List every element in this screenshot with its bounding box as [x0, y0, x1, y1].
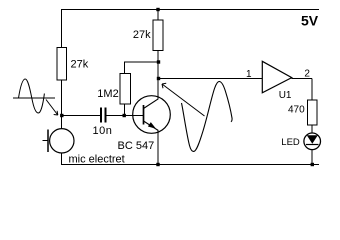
svg-text:1M2: 1M2: [97, 88, 118, 100]
annotation: arrow from small sine to node A: [46, 100, 58, 116]
wire R4 bottom to LED top: [311, 125, 313, 134]
annotation: large sine wave at collector: [182, 81, 233, 151]
resistor R4 470: [308, 100, 318, 125]
emitter arrow of Q1: [148, 122, 156, 129]
resistor R2 27k: [153, 20, 163, 51]
resistor R1 27k: [57, 48, 67, 81]
svg-text:10n: 10n: [93, 125, 113, 137]
svg-text:mic electret: mic electret: [69, 154, 125, 166]
wire R2 bottom to Q1 collector: [157, 51, 159, 100]
svg-text:BC 547: BC 547: [118, 140, 155, 152]
node: junction dot 1M2 / base wire: [123, 114, 126, 117]
wire rail to R2 top: [157, 10, 159, 21]
wire U1 output to R4: [292, 78, 313, 80]
annotation: small sine wave at mic input: [13, 79, 55, 113]
annotation: arrow from large sine to collector node: [162, 83, 205, 116]
node: junction dot top rail / R2: [156, 8, 159, 11]
wire mic bottom lead: [61, 153, 63, 165]
microphone MIC electret: [43, 129, 75, 153]
svg-text:U1: U1: [279, 90, 292, 101]
node: junction dot LED / bottom rail: [311, 163, 314, 166]
svg-text:1: 1: [246, 69, 252, 80]
wire R3 top lead: [124, 62, 126, 74]
wire R3 bottom lead: [124, 104, 126, 116]
node: junction dot 1M2 / collector: [157, 60, 160, 63]
svg-text:27k: 27k: [71, 58, 89, 70]
wire top rail: [61, 9, 319, 11]
capacitor C1 10n: [100, 108, 107, 123]
wire collector node to U1 input: [158, 78, 262, 80]
LED D1: [304, 133, 321, 150]
5V supply rail (top): [61, 10, 319, 165]
wire C1 right plate to Q1 base: [106, 115, 144, 117]
svg-text:LED: LED: [281, 137, 300, 148]
svg-text:470: 470: [288, 105, 305, 116]
node A: junction dot mic / R1 / C1: [60, 114, 63, 117]
transistor Q1 BC 547: [133, 96, 171, 134]
wire bottom rail: [61, 164, 319, 166]
op-amp buffer U1: [262, 61, 291, 93]
wire node A to C1 left plate: [62, 115, 101, 117]
resistor R3 1M2: [120, 74, 131, 105]
wire Q1 emitter to rail: [157, 130, 159, 165]
svg-text:2: 2: [304, 69, 310, 80]
node: junction dot collector / U1 input: [157, 77, 160, 80]
wire R1 bottom to mic top (through node A): [61, 80, 63, 129]
wire left branch: rail to R1: [61, 10, 63, 48]
svg-text:5V: 5V: [301, 12, 319, 28]
svg-text:27k: 27k: [133, 29, 151, 41]
wire LED bottom to rail: [311, 150, 313, 165]
wire R3 top to collector node: [124, 61, 159, 63]
node: junction dot emitter / bottom rail: [156, 163, 159, 166]
